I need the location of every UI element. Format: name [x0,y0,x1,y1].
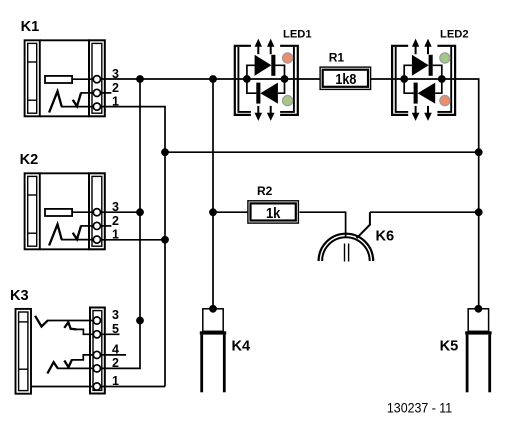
resistor R2 value 1k [248,184,299,223]
svg-text:2: 2 [112,214,119,228]
wire from R1 to LED2 and down right side [371,79,479,309]
svg-text:K4: K4 [232,339,252,355]
connector K3 (5-pin stereo jack socket) [10,288,126,394]
wire R2 left lead [213,211,248,213]
junction K2 pin1 / bus x=165 [161,236,169,244]
wire vertical bus x=140 from top rail to K3 pin 2 [100,79,140,368]
svg-text:R1: R1 [329,50,345,64]
svg-text:K2: K2 [20,152,39,168]
junction K6 wire / right bus [475,208,483,216]
svg-text:K1: K1 [21,19,40,35]
svg-text:K5: K5 [440,339,459,355]
svg-text:R2: R2 [257,184,273,198]
junction K2 pin3 / bus x=140 [136,208,144,216]
junction R2 lead / bus x=213 [209,208,217,216]
connector K4 (2-pin header) [200,305,251,392]
wire vertical bus x=213 from top rail to K4 [212,79,214,309]
connector K5 (2-pin header) [440,305,492,392]
connector K6 (plug into socket) [319,212,395,261]
svg-text:K6: K6 [376,229,395,245]
junction mid rail / right bus [475,148,483,156]
wire K6 to right bus [370,211,479,213]
svg-text:2: 2 [112,81,119,95]
wire middle rail y=152 [165,151,479,153]
wire K3 pin 1 to bus x=165 [100,386,165,388]
wire K2 pin 3 to bus [100,211,140,213]
wire K1 pin 1 to vertical bus x=165 down to K3 pin 1 [100,107,165,387]
svg-text:1k: 1k [266,206,281,222]
junction top rail / bus x=140 [136,75,144,83]
bi-colour LED LED2 [392,28,469,121]
svg-text:5: 5 [112,322,119,336]
wire K2 pin 1 to bus [100,239,165,241]
svg-text:130237 - 11: 130237 - 11 [387,399,452,415]
wire top rail from K1 pin 3 to R1 [100,78,319,80]
svg-text:1k8: 1k8 [335,72,356,88]
bi-colour LED LED1 [235,28,312,121]
connector K1 (3.5mm jack socket) [21,19,119,116]
junction K3 pin3 / bus x=140 [136,317,144,325]
svg-text:K3: K3 [10,288,29,304]
svg-text:LED1: LED1 [283,28,312,40]
junction bus x=165 / mid rail [161,148,169,156]
resistor R1 value 1k8 [320,50,371,89]
connector K2 (3.5mm jack socket) [20,152,119,249]
svg-text:LED2: LED2 [440,28,469,40]
wire R2 right lead to K6 [300,212,346,236]
svg-text:4: 4 [112,342,119,356]
svg-text:3: 3 [112,308,119,322]
junction top rail / bus x=213 [209,75,217,83]
